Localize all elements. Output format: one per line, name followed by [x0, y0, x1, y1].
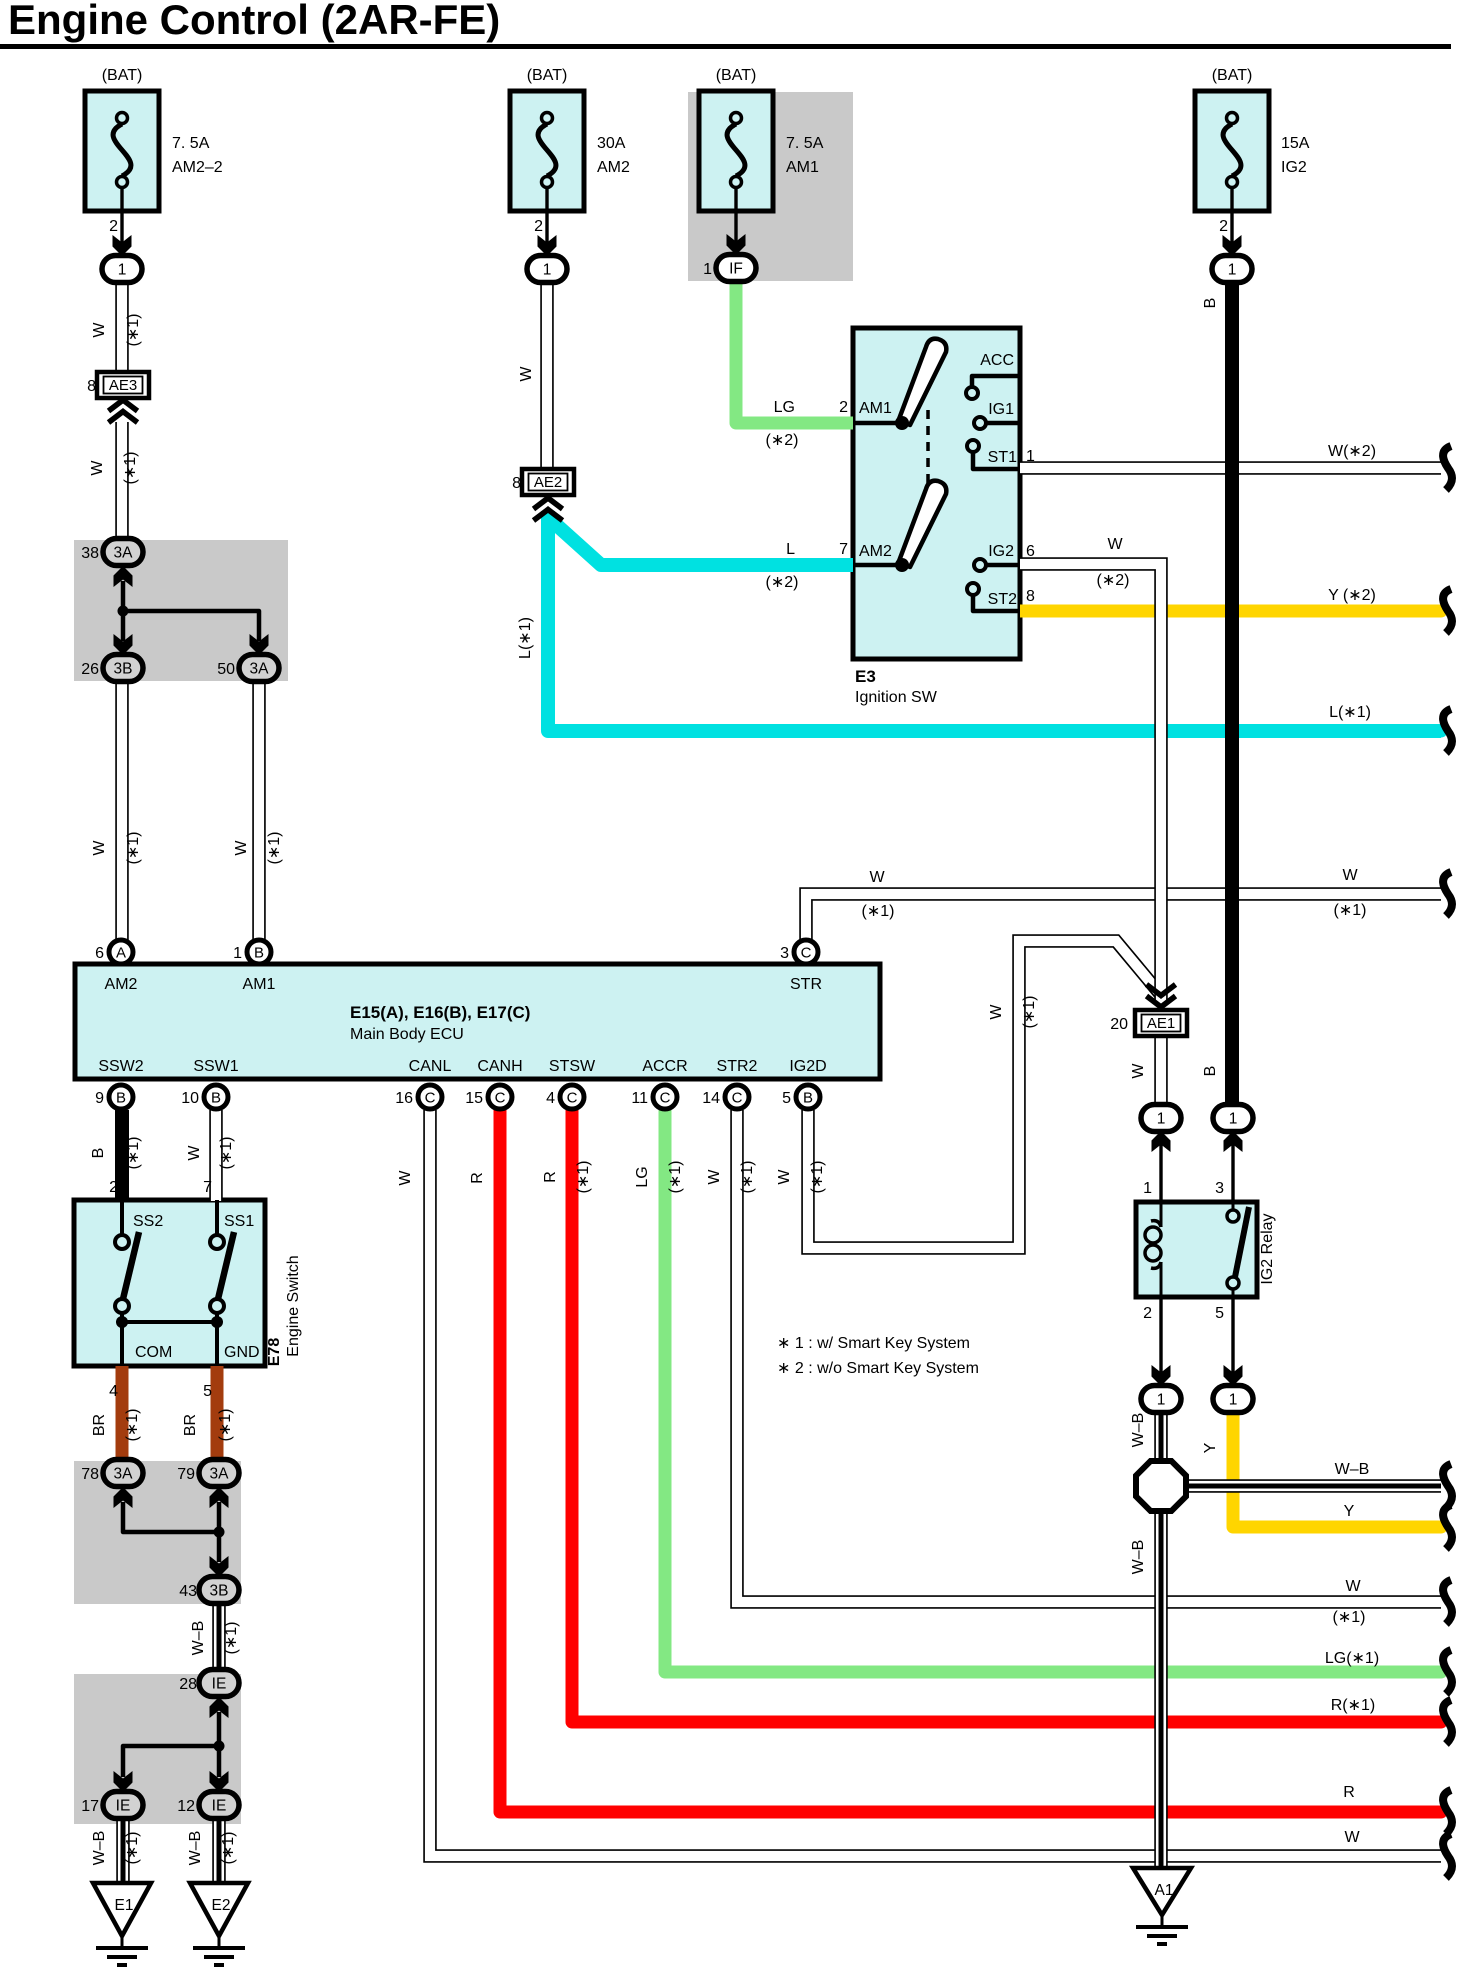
svg-text:2: 2: [1219, 218, 1228, 235]
svg-text:2: 2: [534, 218, 543, 235]
svg-text:38: 38: [81, 545, 99, 562]
svg-text:B: B: [254, 945, 264, 962]
svg-text:ST2: ST2: [988, 591, 1017, 608]
svg-text:11: 11: [631, 1090, 648, 1107]
svg-text:5: 5: [1215, 1305, 1224, 1322]
svg-text:8: 8: [512, 475, 521, 492]
svg-text:Engine Control (2AR-FE): Engine Control (2AR-FE): [8, 0, 500, 43]
svg-text:CANH: CANH: [477, 1058, 522, 1075]
svg-text:IG2 Relay: IG2 Relay: [1259, 1213, 1276, 1284]
svg-text:W–B: W–B: [1335, 1461, 1370, 1478]
svg-text:5: 5: [203, 1383, 212, 1400]
svg-text:(∗1): (∗1): [1334, 902, 1367, 919]
svg-text:AM2: AM2: [597, 159, 630, 176]
svg-text:B: B: [116, 1090, 126, 1107]
svg-text:(∗1): (∗1): [217, 1409, 234, 1442]
svg-text:8: 8: [87, 378, 96, 395]
svg-text:R(∗1): R(∗1): [1331, 1697, 1376, 1714]
svg-text:2: 2: [109, 218, 118, 235]
svg-text:(BAT): (BAT): [527, 67, 568, 84]
svg-text:SSW2: SSW2: [98, 1058, 143, 1075]
svg-text:W: W: [91, 840, 108, 856]
svg-text:IE: IE: [212, 1798, 227, 1815]
svg-text:A1: A1: [1155, 1882, 1174, 1899]
svg-text:B: B: [211, 1090, 221, 1107]
svg-text:C: C: [732, 1090, 743, 1107]
svg-text:(∗1): (∗1): [220, 1832, 237, 1865]
svg-text:IG2: IG2: [988, 543, 1014, 560]
svg-text:(∗1): (∗1): [124, 1409, 141, 1442]
svg-text:SS2: SS2: [133, 1213, 163, 1230]
svg-text:3B: 3B: [114, 661, 133, 678]
svg-text:SSW1: SSW1: [193, 1058, 238, 1075]
svg-text:∗ 2 : w/o Smart Key System: ∗ 2 : w/o Smart Key System: [777, 1360, 979, 1377]
svg-text:3A: 3A: [210, 1466, 230, 1483]
svg-text:ACCR: ACCR: [642, 1058, 687, 1075]
svg-text:8: 8: [1026, 588, 1035, 605]
svg-text:C: C: [801, 945, 812, 962]
svg-text:1: 1: [703, 261, 712, 278]
svg-text:9: 9: [95, 1090, 104, 1107]
svg-text:CANL: CANL: [409, 1058, 452, 1075]
svg-text:A: A: [116, 945, 126, 962]
svg-text:IF: IF: [729, 261, 743, 278]
svg-text:R: R: [542, 1171, 559, 1183]
svg-text:W: W: [1342, 867, 1358, 884]
svg-text:15: 15: [465, 1090, 483, 1107]
svg-text:B: B: [1202, 298, 1219, 309]
svg-text:Ignition SW: Ignition SW: [855, 689, 938, 706]
svg-text:COM: COM: [135, 1344, 172, 1361]
svg-text:W: W: [988, 1004, 1005, 1020]
svg-text:(BAT): (BAT): [1212, 67, 1253, 84]
svg-text:(∗1): (∗1): [218, 1137, 235, 1170]
svg-text:W: W: [233, 840, 250, 856]
svg-text:30A: 30A: [597, 135, 626, 152]
svg-text:(∗1): (∗1): [862, 903, 895, 920]
svg-text:(∗1): (∗1): [223, 1622, 240, 1655]
svg-text:2: 2: [109, 1179, 118, 1196]
svg-text:IG2: IG2: [1281, 159, 1307, 176]
svg-text:C: C: [425, 1090, 436, 1107]
svg-text:W: W: [1130, 1063, 1147, 1079]
svg-text:ACC: ACC: [980, 352, 1014, 369]
svg-text:W: W: [1344, 1829, 1360, 1846]
svg-text:W: W: [91, 322, 108, 338]
svg-text:AE2: AE2: [534, 474, 562, 491]
svg-text:1: 1: [1157, 1392, 1166, 1409]
svg-text:15A: 15A: [1281, 135, 1310, 152]
svg-text:7. 5A: 7. 5A: [172, 135, 210, 152]
svg-text:R: R: [469, 1172, 486, 1184]
svg-text:7: 7: [203, 1179, 212, 1196]
svg-text:W: W: [518, 366, 535, 382]
svg-text:12: 12: [177, 1798, 195, 1815]
svg-text:E15(A), E16(B), E17(C): E15(A), E16(B), E17(C): [350, 1003, 530, 1022]
svg-text:∗ 1 : w/ Smart Key System: ∗ 1 : w/ Smart Key System: [777, 1335, 970, 1352]
svg-text:(∗2): (∗2): [766, 574, 799, 591]
svg-text:W–B: W–B: [190, 1621, 207, 1656]
svg-text:R: R: [1343, 1784, 1355, 1801]
svg-text:7: 7: [839, 541, 848, 558]
svg-text:3A: 3A: [250, 661, 270, 678]
svg-text:AM1: AM1: [243, 976, 276, 993]
svg-text:28: 28: [179, 1676, 197, 1693]
svg-text:GND: GND: [224, 1344, 260, 1361]
svg-text:W–B: W–B: [91, 1831, 108, 1866]
svg-text:(BAT): (BAT): [102, 67, 143, 84]
svg-text:1: 1: [1157, 1111, 1166, 1128]
svg-text:C: C: [660, 1090, 671, 1107]
svg-text:Y (∗2): Y (∗2): [1328, 587, 1376, 604]
svg-text:W: W: [186, 1145, 203, 1161]
svg-text:E2: E2: [212, 1897, 231, 1914]
svg-text:Y: Y: [1344, 1503, 1355, 1520]
svg-text:3A: 3A: [114, 1466, 134, 1483]
svg-text:2: 2: [839, 399, 848, 416]
svg-text:AM2: AM2: [859, 543, 892, 560]
svg-text:4: 4: [109, 1383, 118, 1400]
svg-text:Engine Switch: Engine Switch: [285, 1255, 302, 1356]
svg-text:BR: BR: [182, 1414, 199, 1436]
svg-text:17: 17: [81, 1798, 99, 1815]
svg-text:50: 50: [217, 661, 235, 678]
svg-text:E3: E3: [855, 667, 876, 686]
svg-text:B: B: [803, 1090, 813, 1107]
svg-text:7. 5A: 7. 5A: [786, 135, 824, 152]
svg-text:(∗1): (∗1): [809, 1161, 826, 1194]
svg-text:E78: E78: [266, 1338, 283, 1367]
svg-text:1: 1: [543, 262, 552, 279]
svg-text:AE3: AE3: [109, 377, 137, 394]
svg-text:2: 2: [1143, 1305, 1152, 1322]
svg-text:IE: IE: [212, 1676, 227, 1693]
svg-text:1: 1: [1143, 1180, 1152, 1197]
svg-text:W: W: [869, 869, 885, 886]
svg-text:W–B: W–B: [1130, 1413, 1147, 1448]
svg-text:1: 1: [1229, 1111, 1238, 1128]
svg-text:LG(∗1): LG(∗1): [1325, 1650, 1379, 1667]
svg-text:SS1: SS1: [224, 1213, 254, 1230]
svg-text:Main Body ECU: Main Body ECU: [350, 1026, 464, 1043]
svg-text:(∗1): (∗1): [1333, 1609, 1366, 1626]
svg-text:STSW: STSW: [549, 1058, 596, 1075]
svg-text:78: 78: [81, 1466, 99, 1483]
svg-text:14: 14: [702, 1090, 720, 1107]
svg-text:1: 1: [1229, 1392, 1238, 1409]
svg-text:5: 5: [782, 1090, 791, 1107]
svg-text:3: 3: [780, 945, 789, 962]
svg-text:LG: LG: [774, 399, 795, 416]
svg-text:Y: Y: [1202, 1442, 1219, 1453]
svg-text:(∗1): (∗1): [739, 1161, 756, 1194]
svg-text:IG2D: IG2D: [789, 1058, 826, 1075]
svg-text:(∗1): (∗1): [266, 832, 283, 865]
svg-text:L: L: [786, 541, 795, 558]
svg-text:6: 6: [1026, 543, 1035, 560]
svg-text:(∗2): (∗2): [1097, 572, 1130, 589]
svg-text:W: W: [1345, 1578, 1361, 1595]
svg-text:26: 26: [81, 661, 99, 678]
svg-text:W: W: [776, 1169, 793, 1185]
svg-text:1: 1: [1026, 448, 1035, 465]
svg-text:IG1: IG1: [988, 401, 1014, 418]
svg-text:W: W: [89, 460, 106, 476]
svg-text:AM2: AM2: [105, 976, 138, 993]
svg-text:(∗1): (∗1): [125, 314, 142, 347]
svg-text:STR: STR: [790, 976, 822, 993]
svg-text:E1: E1: [115, 1897, 134, 1914]
svg-text:(∗1): (∗1): [575, 1161, 592, 1194]
svg-text:W: W: [1107, 536, 1123, 553]
svg-text:AE1: AE1: [1147, 1015, 1175, 1032]
svg-text:(∗1): (∗1): [1021, 996, 1038, 1029]
svg-text:C: C: [567, 1090, 578, 1107]
svg-text:ST1: ST1: [988, 449, 1017, 466]
svg-text:W: W: [706, 1169, 723, 1185]
svg-text:1: 1: [233, 945, 242, 962]
svg-text:W(∗2): W(∗2): [1328, 443, 1376, 460]
svg-text:43: 43: [179, 1583, 197, 1600]
svg-text:(∗2): (∗2): [766, 432, 799, 449]
svg-text:6: 6: [95, 945, 104, 962]
svg-text:(∗1): (∗1): [125, 832, 142, 865]
svg-text:79: 79: [177, 1466, 195, 1483]
svg-text:B: B: [1202, 1066, 1219, 1077]
svg-text:B: B: [90, 1148, 107, 1159]
svg-text:3B: 3B: [210, 1583, 229, 1600]
svg-text:3: 3: [1215, 1180, 1224, 1197]
svg-text:(∗1): (∗1): [124, 1832, 141, 1865]
svg-text:L(∗1): L(∗1): [1329, 704, 1371, 721]
svg-text:STR2: STR2: [717, 1058, 758, 1075]
svg-text:W–B: W–B: [1130, 1540, 1147, 1575]
svg-text:(∗1): (∗1): [125, 1137, 142, 1170]
svg-text:1: 1: [1228, 262, 1237, 279]
svg-text:10: 10: [181, 1090, 199, 1107]
svg-text:1: 1: [118, 262, 127, 279]
svg-text:(∗1): (∗1): [667, 1161, 684, 1194]
svg-text:4: 4: [546, 1090, 555, 1107]
svg-text:IE: IE: [116, 1798, 131, 1815]
svg-text:(∗1): (∗1): [122, 452, 139, 485]
svg-text:L(∗1): L(∗1): [517, 617, 534, 659]
svg-text:W: W: [397, 1170, 414, 1186]
svg-text:AM2–2: AM2–2: [172, 159, 223, 176]
svg-text:16: 16: [395, 1090, 413, 1107]
svg-text:(BAT): (BAT): [716, 67, 757, 84]
svg-text:20: 20: [1110, 1016, 1128, 1033]
svg-text:C: C: [495, 1090, 506, 1107]
svg-text:3A: 3A: [114, 545, 134, 562]
svg-text:W–B: W–B: [187, 1831, 204, 1866]
svg-text:AM1: AM1: [859, 400, 892, 417]
svg-text:LG: LG: [634, 1166, 651, 1187]
svg-text:AM1: AM1: [786, 159, 819, 176]
svg-text:BR: BR: [91, 1414, 108, 1436]
